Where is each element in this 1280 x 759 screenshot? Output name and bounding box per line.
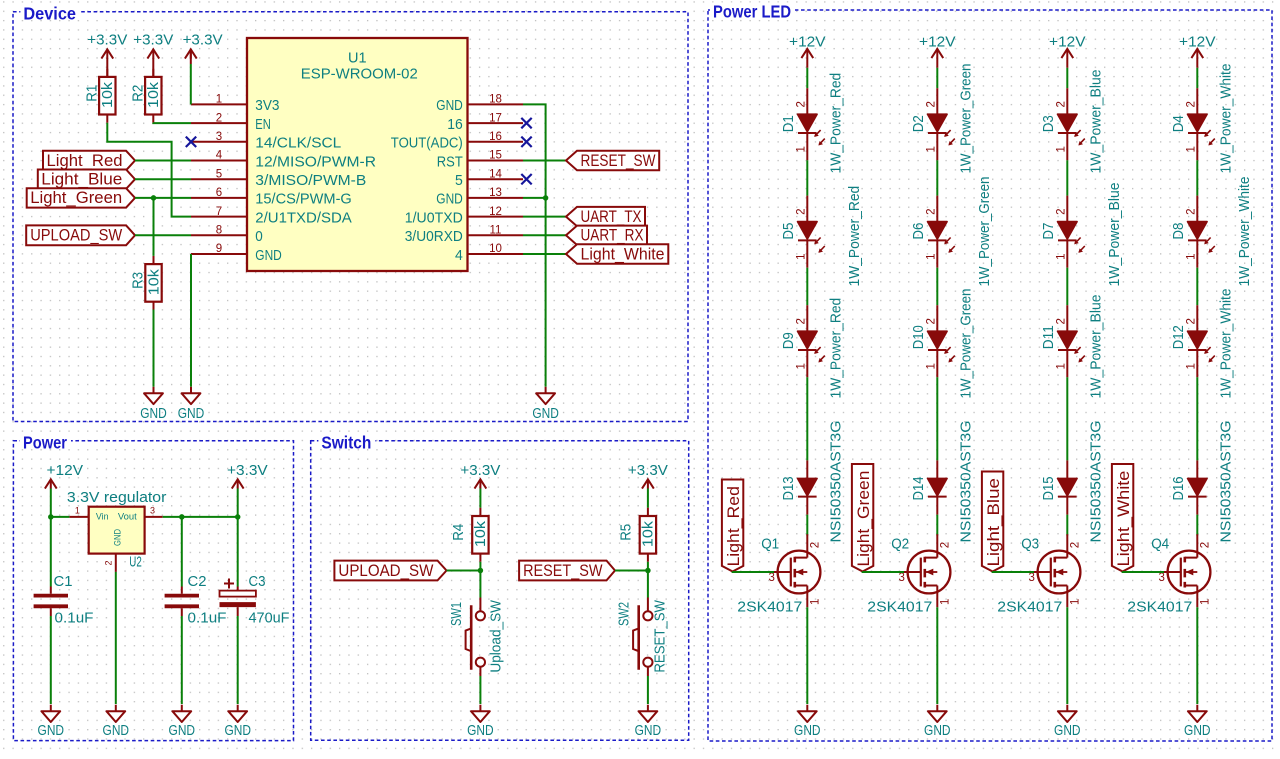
svg-text:2SK4017: 2SK4017 xyxy=(867,600,932,616)
wire D8 to D12 xyxy=(1196,268,1198,306)
svg-text:2: 2 xyxy=(1056,318,1068,324)
U1 right pin 17 (16) xyxy=(468,122,524,124)
wire Light_Red to Q1 gate xyxy=(733,571,774,574)
wire junction to SW1 xyxy=(479,571,481,598)
svg-text:RESET_SW: RESET_SW xyxy=(581,151,656,170)
svg-text:2: 2 xyxy=(104,560,114,565)
resistor R3 xyxy=(145,256,161,310)
svg-text:Vin: Vin xyxy=(96,512,109,523)
wire D10 to D14 xyxy=(936,377,938,460)
power symbol +12V (column Red) xyxy=(801,49,813,58)
svg-text:GND: GND xyxy=(38,723,65,739)
junction C3 rail xyxy=(235,514,241,520)
wire UPLOAD_SW to pin 8 xyxy=(135,234,191,236)
svg-text:3V3: 3V3 xyxy=(255,97,279,114)
svg-text:1: 1 xyxy=(1186,146,1198,152)
svg-text:2SK4017: 2SK4017 xyxy=(1127,600,1192,616)
svg-text:3: 3 xyxy=(150,506,155,516)
svg-text:GND: GND xyxy=(1054,723,1081,739)
push button SW2 xyxy=(633,598,652,677)
LED D12 xyxy=(1188,305,1215,377)
svg-text:D15: D15 xyxy=(1041,477,1057,501)
global label Light_Blue xyxy=(38,170,135,189)
U2 pin 1 xyxy=(69,516,88,518)
svg-text:1W_Power_Blue: 1W_Power_Blue xyxy=(1088,295,1104,399)
svg-text:18: 18 xyxy=(489,94,502,106)
svg-text:GND: GND xyxy=(532,406,559,422)
wire +12V to D2 xyxy=(936,68,938,88)
svg-text:1W_Power_White: 1W_Power_White xyxy=(1218,289,1234,399)
svg-text:2: 2 xyxy=(796,208,808,214)
wire R3 to GND xyxy=(153,310,155,387)
wire D15 to Q3 drain xyxy=(1066,515,1068,536)
U1 left pin 4 (12/MISO/PWM-R) xyxy=(191,160,247,162)
wire Light_Green branch to R3 xyxy=(153,198,155,256)
wire Light_Blue to Q3 gate xyxy=(993,571,1034,574)
svg-text:1W_Power_Red: 1W_Power_Red xyxy=(828,73,844,174)
svg-text:UART_TX: UART_TX xyxy=(581,207,642,226)
wire D2 to D6 xyxy=(936,160,938,195)
svg-text:1: 1 xyxy=(926,363,938,369)
svg-text:Switch: Switch xyxy=(321,432,371,452)
power symbol +12V (column White) xyxy=(1191,49,1203,58)
svg-text:R1: R1 xyxy=(85,85,101,102)
svg-text:1: 1 xyxy=(1186,253,1198,259)
U1 right pin 14 (5) xyxy=(468,178,524,180)
svg-text:2: 2 xyxy=(796,101,808,107)
U2 pin 3 xyxy=(145,516,163,518)
svg-text:9: 9 xyxy=(216,243,222,255)
svg-text:+12V: +12V xyxy=(47,462,84,479)
U1 right pin 12 (1/U0TXD) xyxy=(468,216,524,218)
svg-text:D2: D2 xyxy=(911,115,927,132)
svg-text:1: 1 xyxy=(1199,599,1211,605)
ground symbol (SW2) xyxy=(639,705,658,722)
wire RESET_SW to switch SW2 xyxy=(615,570,648,572)
LED D1 xyxy=(798,88,825,160)
svg-text:0.1uF: 0.1uF xyxy=(55,611,94,627)
wire RST to RESET_SW xyxy=(523,160,566,162)
transistor Q4 2SK4017 xyxy=(1164,534,1210,607)
svg-text:1W_Power_Green: 1W_Power_Green xyxy=(958,63,974,173)
U1 right pin 15 (RST) xyxy=(468,160,524,162)
svg-text:RST: RST xyxy=(437,153,463,170)
junction SW2 xyxy=(645,568,651,574)
svg-text:NSI50350AST3G: NSI50350AST3G xyxy=(828,421,844,543)
wire D1 to D5 xyxy=(806,160,808,195)
wire R5 to junction xyxy=(647,562,649,571)
svg-text:470uF: 470uF xyxy=(249,611,290,627)
svg-text:12/MISO/PWM-R: 12/MISO/PWM-R xyxy=(255,153,376,170)
svg-text:8: 8 xyxy=(216,225,222,237)
svg-text:1: 1 xyxy=(809,599,821,605)
svg-text:GND: GND xyxy=(436,97,463,114)
svg-text:1: 1 xyxy=(1056,253,1068,259)
U1 left pin 2 (EN) xyxy=(191,122,247,124)
svg-text:D4: D4 xyxy=(1171,115,1187,132)
wire R2 to pin 2 (EN) xyxy=(153,122,191,124)
svg-text:R3: R3 xyxy=(131,272,147,289)
svg-text:Power: Power xyxy=(23,432,67,452)
global label UART_TX xyxy=(566,207,645,226)
ESP module U1 body xyxy=(247,38,468,271)
svg-text:Light_Red: Light_Red xyxy=(724,486,743,566)
svg-text:17: 17 xyxy=(489,112,502,124)
push button SW1 xyxy=(466,598,485,677)
svg-text:10k: 10k xyxy=(146,268,162,295)
svg-text:D10: D10 xyxy=(911,325,927,349)
ground symbol (C3) xyxy=(228,705,247,722)
CCS diode D15 xyxy=(1058,460,1078,514)
svg-text:C3: C3 xyxy=(249,574,266,590)
wire Light_Green to pin 6 xyxy=(135,197,191,199)
svg-text:Light_Green: Light_Green xyxy=(854,471,873,567)
svg-text:1W_Power_Red: 1W_Power_Red xyxy=(828,298,844,399)
Device section border xyxy=(13,12,688,422)
wire D12 to D16 xyxy=(1196,377,1198,460)
ground symbol (SW1) xyxy=(471,705,490,722)
svg-text:GND: GND xyxy=(224,723,251,739)
junction C2 rail xyxy=(179,514,185,520)
LED D3 xyxy=(1058,88,1085,160)
svg-text:0: 0 xyxy=(255,228,262,245)
transistor Q3 2SK4017 xyxy=(1034,534,1080,607)
wire +3.3V to R4 xyxy=(479,489,481,508)
svg-text:D11: D11 xyxy=(1041,325,1057,349)
svg-text:Q1: Q1 xyxy=(761,537,779,553)
svg-text:1: 1 xyxy=(926,253,938,259)
U1 left pin 3 (14/CLK/SCL) xyxy=(191,141,247,143)
wire rail to C3 xyxy=(237,517,239,587)
Power section border xyxy=(13,441,293,741)
U1 right pin 18 (GND) xyxy=(468,103,524,105)
svg-text:GND: GND xyxy=(140,406,167,422)
svg-text:GND: GND xyxy=(794,723,821,739)
wire Q3 source to GND xyxy=(1066,607,1068,704)
svg-text:1: 1 xyxy=(796,253,808,259)
svg-text:2: 2 xyxy=(809,542,821,548)
wire D11 to D15 xyxy=(1066,377,1068,460)
svg-text:15: 15 xyxy=(489,150,502,162)
no-connect pin 3 xyxy=(186,137,196,147)
svg-text:5: 5 xyxy=(455,172,463,189)
svg-text:Upload_SW: Upload_SW xyxy=(488,600,504,673)
ground symbol (C1) xyxy=(41,705,60,722)
svg-text:3/MISO/PWM-B: 3/MISO/PWM-B xyxy=(255,172,366,189)
global label Light_Blue (led column) xyxy=(982,472,1003,572)
svg-text:+12V: +12V xyxy=(1179,33,1216,50)
global label UPLOAD_SW (switch) xyxy=(334,561,446,581)
svg-text:+12V: +12V xyxy=(1049,33,1086,50)
svg-text:NSI50350AST3G: NSI50350AST3G xyxy=(958,420,974,542)
svg-text:10k: 10k xyxy=(473,520,489,547)
svg-text:6: 6 xyxy=(216,187,222,199)
svg-text:D3: D3 xyxy=(1041,115,1057,132)
svg-text:1W_Power_White: 1W_Power_White xyxy=(1218,64,1234,174)
wire +3.3V down to rail xyxy=(237,489,239,517)
svg-text:Vout: Vout xyxy=(118,512,137,523)
U1 left pin 6 (15/CS/PWM-G) xyxy=(191,197,247,199)
svg-text:GND: GND xyxy=(467,723,494,739)
wire pin 18 GND bus xyxy=(523,104,546,386)
svg-text:Device: Device xyxy=(23,3,76,23)
wire Q2 source to GND xyxy=(936,607,938,704)
svg-text:+3.3V: +3.3V xyxy=(227,462,268,479)
svg-text:2: 2 xyxy=(1186,101,1198,107)
svg-text:2: 2 xyxy=(216,112,222,124)
svg-text:2: 2 xyxy=(926,101,938,107)
svg-text:2: 2 xyxy=(1186,318,1198,324)
svg-text:3: 3 xyxy=(1159,572,1165,584)
svg-text:NSI50350AST3G: NSI50350AST3G xyxy=(1218,421,1234,543)
svg-text:D5: D5 xyxy=(781,223,797,240)
svg-text:GND: GND xyxy=(103,723,130,739)
svg-text:1W_Power_Blue: 1W_Power_Blue xyxy=(1088,70,1104,174)
wire pin 9 to GND xyxy=(190,254,192,387)
CCS diode D13 xyxy=(798,460,818,514)
svg-text:R5: R5 xyxy=(619,524,635,541)
Power section title xyxy=(20,433,71,448)
svg-text:+3.3V: +3.3V xyxy=(460,462,500,479)
junction C1 rail xyxy=(48,514,54,520)
svg-text:1W_Power_White: 1W_Power_White xyxy=(1237,177,1253,287)
wire D6 to D10 xyxy=(936,268,938,306)
Switch section title xyxy=(318,433,375,448)
LED D7 xyxy=(1058,196,1085,268)
svg-text:+12V: +12V xyxy=(919,33,956,50)
power symbol +12V (column Blue) xyxy=(1061,49,1073,58)
svg-text:UPLOAD_SW: UPLOAD_SW xyxy=(338,561,433,580)
capacitor C2 xyxy=(165,587,199,617)
ground symbol (U2) xyxy=(106,705,125,722)
resistor R1 xyxy=(99,69,115,123)
svg-text:+3.3V: +3.3V xyxy=(87,32,127,49)
LED D8 xyxy=(1188,196,1215,268)
wire +12V to D3 xyxy=(1066,68,1068,88)
wire +3.3V to pin 1 xyxy=(190,49,192,64)
wire +3.3V to R5 xyxy=(647,489,649,508)
U1 right pin 11 (3/U0RXD) xyxy=(468,234,524,236)
svg-text:2: 2 xyxy=(796,318,808,324)
wire UPLOAD_SW to switch SW1 xyxy=(447,570,481,572)
svg-text:GND: GND xyxy=(436,191,463,208)
svg-text:RESET_SW: RESET_SW xyxy=(523,561,602,580)
power symbol +12V (column Green) xyxy=(931,49,943,58)
resistor R5 xyxy=(640,508,656,562)
U2 pin 2 xyxy=(115,554,117,572)
ground symbol (column White) xyxy=(1188,705,1207,722)
svg-text:D7: D7 xyxy=(1041,223,1057,240)
svg-text:2: 2 xyxy=(926,208,938,214)
Power LED section border xyxy=(708,10,1272,741)
svg-text:1: 1 xyxy=(1186,363,1198,369)
svg-text:TOUT(ADC): TOUT(ADC) xyxy=(391,135,463,152)
svg-text:1W_Power_Green: 1W_Power_Green xyxy=(977,177,993,287)
wire pin 13 to GND bus xyxy=(523,197,546,199)
svg-text:12: 12 xyxy=(489,206,502,218)
wire C1 to GND xyxy=(50,616,52,704)
wire junction to SW2 xyxy=(647,571,649,598)
svg-text:D8: D8 xyxy=(1171,223,1187,240)
wire +12V rail to U2 Vin xyxy=(51,516,70,518)
wire Light_Green to Q2 gate xyxy=(863,571,904,574)
wire C3 to GND xyxy=(237,616,239,704)
global label RESET_SW (device) xyxy=(566,151,659,170)
svg-text:D14: D14 xyxy=(911,477,927,501)
svg-text:ESP-WROOM-02: ESP-WROOM-02 xyxy=(301,66,418,82)
transistor Q1 2SK4017 xyxy=(774,534,820,607)
svg-text:GND: GND xyxy=(255,247,282,264)
svg-text:14: 14 xyxy=(489,168,502,180)
svg-text:1: 1 xyxy=(796,363,808,369)
svg-text:1/U0TXD: 1/U0TXD xyxy=(405,209,463,226)
wire D9 to D13 xyxy=(806,377,808,460)
wire Q4 source to GND xyxy=(1196,607,1198,704)
svg-text:SW2: SW2 xyxy=(617,602,633,626)
svg-text:D9: D9 xyxy=(781,332,797,349)
svg-text:4: 4 xyxy=(216,150,223,162)
svg-text:16: 16 xyxy=(447,116,463,133)
svg-text:3: 3 xyxy=(216,131,222,143)
svg-text:GND: GND xyxy=(1184,723,1211,739)
svg-text:1W_Power_Red: 1W_Power_Red xyxy=(847,186,863,287)
svg-text:1W_Power_Green: 1W_Power_Green xyxy=(958,288,974,398)
svg-text:2: 2 xyxy=(1069,542,1081,548)
svg-text:Light_Green: Light_Green xyxy=(30,188,122,207)
svg-text:GND: GND xyxy=(113,529,124,546)
svg-text:GND: GND xyxy=(178,406,205,422)
transistor Q2 2SK4017 xyxy=(904,534,950,607)
wire pin 10 to Light_White xyxy=(523,253,566,255)
svg-text:10k: 10k xyxy=(100,81,116,108)
svg-text:5: 5 xyxy=(216,168,222,180)
svg-text:Q4: Q4 xyxy=(1151,537,1169,553)
no-connect pin 16 xyxy=(521,137,531,147)
svg-text:EN: EN xyxy=(255,116,270,133)
svg-text:16: 16 xyxy=(489,131,502,143)
U1 left pin 9 (GND) xyxy=(191,253,247,255)
global label Light_White (led column) xyxy=(1112,464,1133,572)
wire D13 to Q1 drain xyxy=(806,515,808,536)
svg-text:2: 2 xyxy=(1056,101,1068,107)
wire SW1 to GND xyxy=(479,676,481,704)
LED D9 xyxy=(798,305,825,377)
regulator U2 body xyxy=(89,507,145,554)
svg-text:2: 2 xyxy=(1199,542,1211,548)
power symbol +3.3V (above R2) xyxy=(147,49,159,58)
svg-text:C2: C2 xyxy=(188,574,207,590)
svg-text:2SK4017: 2SK4017 xyxy=(997,600,1062,616)
svg-text:C1: C1 xyxy=(54,574,73,590)
U1 right pin 16 (TOUT(ADC)) xyxy=(468,141,524,143)
svg-text:2/U1TXD/SDA: 2/U1TXD/SDA xyxy=(255,209,351,226)
no-connect pin 14 xyxy=(521,174,531,184)
wire Light_Blue to pin 5 xyxy=(135,178,191,180)
wire +12V to D4 xyxy=(1196,68,1198,88)
power symbol +12V (power section) xyxy=(45,479,57,488)
wire R1 to pin 7 xyxy=(107,123,191,217)
svg-text:1: 1 xyxy=(1069,599,1081,605)
svg-text:10k: 10k xyxy=(641,520,657,547)
wire D16 to Q4 drain xyxy=(1196,515,1198,536)
svg-text:4: 4 xyxy=(455,247,463,264)
U1 right pin 10 (4) xyxy=(468,253,524,255)
svg-text:+3.3V: +3.3V xyxy=(183,32,223,49)
svg-text:D6: D6 xyxy=(911,223,927,240)
power symbol +3.3V (above pin 1) xyxy=(185,49,197,58)
polarized capacitor C3 xyxy=(220,587,256,617)
CCS diode D16 xyxy=(1188,460,1208,514)
wire +12V down to rail xyxy=(50,489,52,517)
svg-text:+3.3V: +3.3V xyxy=(133,32,173,49)
wire D5 to D9 xyxy=(806,268,808,306)
power symbol +3.3V (SW2 column) xyxy=(642,479,654,488)
svg-text:D12: D12 xyxy=(1171,325,1187,349)
power symbol +3.3V (above R1) xyxy=(101,49,113,58)
ground symbol (C2) xyxy=(172,705,191,722)
svg-text:Light_Blue: Light_Blue xyxy=(984,478,1003,566)
global label Light_Green (led column) xyxy=(852,464,873,572)
svg-text:3.3V regulator: 3.3V regulator xyxy=(67,490,167,506)
wire D14 to Q2 drain xyxy=(936,515,938,536)
svg-text:SW1: SW1 xyxy=(449,602,465,626)
svg-text:1: 1 xyxy=(926,146,938,152)
svg-text:R4: R4 xyxy=(451,524,467,541)
LED D11 xyxy=(1058,305,1085,377)
resistor R4 xyxy=(472,508,488,562)
wire pin 12 to UART_TX xyxy=(523,216,566,218)
wire Light_Red to pin 4 xyxy=(135,160,191,162)
wire rail to C2 xyxy=(181,517,183,587)
svg-text:Light_Red: Light_Red xyxy=(47,151,123,170)
no-connect pin 17 xyxy=(521,118,531,128)
ground symbol (U1 right) xyxy=(536,387,555,404)
LED D4 xyxy=(1188,88,1215,160)
svg-text:GND: GND xyxy=(169,723,196,739)
ground symbol (R3) xyxy=(144,387,163,404)
wire D4 to D8 xyxy=(1196,160,1198,195)
svg-text:GND: GND xyxy=(924,723,951,739)
global label Light_Red (led column) xyxy=(722,480,743,572)
svg-text:11: 11 xyxy=(490,225,502,237)
svg-text:0.1uF: 0.1uF xyxy=(188,611,227,627)
svg-text:2: 2 xyxy=(926,318,938,324)
wire D7 to D11 xyxy=(1066,268,1068,306)
svg-text:+3.3V: +3.3V xyxy=(628,462,668,479)
U1 left pin 5 (3/MISO/PWM-B) xyxy=(191,178,247,180)
svg-text:13: 13 xyxy=(489,187,502,199)
svg-text:1: 1 xyxy=(939,599,951,605)
ground symbol (pin 9) xyxy=(182,387,201,404)
global label Light_White (device) xyxy=(566,244,668,263)
svg-text:Light_Blue: Light_Blue xyxy=(41,170,122,189)
power symbol +3.3V (power section) xyxy=(232,479,244,488)
svg-text:1W_Power_Blue: 1W_Power_Blue xyxy=(1107,183,1123,287)
svg-text:2SK4017: 2SK4017 xyxy=(737,600,802,616)
Device section title xyxy=(20,4,80,19)
svg-text:10: 10 xyxy=(489,243,502,255)
svg-text:3: 3 xyxy=(1029,572,1035,584)
svg-text:2: 2 xyxy=(1056,208,1068,214)
global label Light_Red xyxy=(43,151,135,170)
svg-text:RESET_SW: RESET_SW xyxy=(652,600,668,673)
svg-text:14/CLK/SCL: 14/CLK/SCL xyxy=(255,135,341,152)
svg-text:2: 2 xyxy=(939,542,951,548)
svg-text:Q2: Q2 xyxy=(891,537,909,553)
global label RESET_SW (switch) xyxy=(519,561,615,581)
svg-text:3/U0RXD: 3/U0RXD xyxy=(405,228,463,245)
wire C2 to GND xyxy=(181,616,183,704)
